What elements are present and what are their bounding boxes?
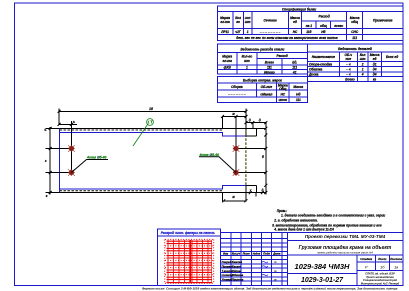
svg-text:Марка: Марка: [222, 55, 232, 59]
dim row3 right small segments: [246, 122, 266, 124]
dim row1 ticks: [58, 110, 248, 113]
table A title row line: [217, 11, 403, 13]
svg-text:г: г: [46, 194, 48, 198]
left bolt label leader: [71, 160, 108, 173]
svg-text:ЛР11: ЛР11: [220, 30, 229, 34]
svg-text:Нд: Нд: [321, 30, 325, 34]
svg-text:НС: НС: [293, 30, 298, 34]
svg-text:ед: ед: [293, 20, 297, 24]
panel top edge (black): [46, 127, 266, 129]
svg-text:– ч: – ч: [346, 72, 351, 76]
red grid dotted borders: [165, 239, 214, 283]
table A outer frame: [217, 6, 403, 41]
seat step extension lines: [246, 136, 256, 186]
svg-text:Ведомость деталей: Ведомость деталей: [338, 47, 372, 51]
bottom right dim line: [224, 200, 246, 202]
svg-text:4отв Ø5-40: 4отв Ø5-40: [199, 153, 220, 157]
svg-text:Формат писал: Синицын 2-М-ВФ-1: Формат писал: Синицын 2-М-ВФ-1029 отдел …: [142, 286, 398, 290]
left bolt column line: [70, 121, 72, 173]
red grid box title divider: [158, 235, 221, 237]
svg-text:д4: д4: [373, 68, 377, 72]
svg-text:во: во: [236, 20, 240, 24]
dim row1 (overall length): [59, 110, 246, 112]
stamp signature rows texts: [222, 260, 244, 281]
svg-text:Грузовая площадка крана на объ: Грузовая площадка крана на объект: [299, 244, 392, 251]
table C title line: [308, 51, 404, 53]
right bolt label leader: [199, 157, 236, 173]
svg-text:фХВ: фХВ: [224, 66, 232, 70]
table D header lines: [217, 83, 307, 103]
svg-text:Общ: Общ: [279, 87, 286, 91]
svg-text:Выборка отправ. марок: Выборка отправ. марок: [243, 78, 282, 82]
svg-text:1029-384 ЧМ3Н: 1029-384 ЧМ3Н: [295, 262, 351, 271]
panel right end verticals (black): [223, 111, 257, 201]
green mark circle: [147, 119, 154, 126]
bolt row leader lines right: [236, 149, 266, 173]
svg-text:дет. вес не вес по всем класса: дет. вес не вес по всем классам на автор…: [236, 36, 337, 40]
svg-text:– ч: – ч: [346, 68, 351, 72]
svg-text:2. в. обработке антисепт.: 2. в. обработке антисепт.: [273, 218, 318, 222]
table A column lines: [233, 12, 363, 41]
svg-text:11д: 11д: [306, 30, 311, 34]
svg-text:шт: шт: [244, 59, 250, 63]
svg-text:Опора-стойка: Опора-стойка: [309, 62, 332, 66]
svg-text:ние: ние: [345, 57, 351, 61]
panel bottom edge (black): [46, 192, 266, 194]
svg-text:41: 41: [292, 70, 297, 74]
svg-text:НС: НС: [280, 92, 285, 96]
bottom edge small ticks + labels: [249, 191, 264, 194]
table A header bottom line: [217, 28, 403, 30]
svg-text:Проект перевозки ТМ4. МУ-03-Т: Проект перевозки ТМ4. МУ-03-ТМ4: [305, 234, 386, 239]
inner top chord line (blue) with seat step: [60, 132, 247, 135]
svg-text:1: 1: [247, 30, 249, 34]
svg-text:д: д: [259, 119, 261, 123]
svg-text:итог: итог: [279, 98, 288, 102]
svg-text:х: х: [249, 188, 252, 192]
green mark leader: [133, 124, 148, 146]
svg-text:4отв Ø5-40: 4отв Ø5-40: [86, 156, 107, 160]
svg-text:111: 111: [267, 66, 272, 70]
svg-text:111: 111: [292, 66, 297, 70]
svg-text:Расход: Расход: [276, 54, 287, 58]
svg-text:1д: 1д: [149, 107, 153, 111]
bolt B4: [233, 169, 240, 176]
svg-text:д1: д1: [373, 62, 377, 66]
svg-text:2: 2: [361, 62, 364, 66]
svg-text:ед: ед: [373, 57, 377, 61]
svg-text:Сечение: Сечение: [263, 19, 276, 23]
svg-text:Минпромстрой №С-Петерб: Минпромстрой №С-Петерб: [361, 281, 400, 285]
bottom hidden edge (yellow/black dashed): [60, 190, 223, 192]
svg-text:Обвязка: Обвязка: [309, 68, 322, 72]
table A data row line: [217, 34, 403, 36]
red grid horizontal lines: [167, 241, 213, 282]
svg-text:Масса: Масса: [293, 85, 303, 89]
inner bottom chord line (blue) with seat step: [60, 185, 247, 189]
svg-text:Кол-во: Кол-во: [242, 55, 253, 59]
svg-text:1в: 1в: [394, 264, 398, 269]
svg-text:4: 4: [361, 72, 364, 76]
stamp left section row lines: [221, 239, 288, 281]
stamp left/right divider: [287, 232, 289, 285]
bottom right dim ticks: [222, 199, 247, 202]
table D title line: [217, 82, 307, 84]
stamp stage table lines: [357, 255, 403, 270]
svg-text:ОБ-ние: ОБ-ние: [261, 85, 273, 89]
svg-text:– ч: – ч: [346, 62, 351, 66]
svg-text:Дата: Дата: [272, 252, 281, 256]
stamp middle divider: [288, 255, 358, 285]
svg-text:Лист: Лист: [377, 257, 387, 261]
svg-text:Всех ед: Всех ед: [386, 55, 398, 59]
right vertical dim line: [265, 123, 267, 195]
svg-text:Нд: Нд: [296, 92, 300, 96]
svg-text:эл-та: эл-та: [220, 20, 230, 24]
svg-text:Подп: Подп: [263, 252, 270, 256]
dim row1 extension verticals: [59, 108, 246, 125]
svg-text:Стадия: Стадия: [360, 257, 372, 261]
green mark label CT: [148, 121, 152, 124]
svg-text:шт: шт: [245, 20, 251, 24]
svg-text:1б: 1б: [380, 264, 385, 269]
svg-text:Расход: Расход: [318, 15, 329, 19]
svg-text:всего: всего: [334, 24, 343, 28]
svg-text:1029-3-01-27: 1029-3-01-27: [301, 277, 344, 284]
svg-text:Наименование: Наименование: [312, 55, 336, 59]
red grid vertical lines: [168, 240, 212, 283]
table B outer frame: [217, 44, 307, 74]
svg-text:Ед.: Ед.: [292, 61, 297, 65]
stamp header row texts: [223, 252, 281, 256]
svg-text:шт: шт: [360, 57, 366, 61]
svg-text:д: д: [262, 188, 264, 192]
top hidden edge (yellow/black dashed): [60, 129, 223, 131]
svg-text:Спецификация балки: Спецификация балки: [282, 7, 316, 11]
svg-text:Листов: Листов: [389, 257, 402, 261]
svg-text:на 1: на 1: [306, 24, 313, 28]
dim row2 left ticks: [58, 123, 73, 126]
svg-text:111: 111: [296, 98, 301, 102]
svg-text:Лист: Лист: [242, 252, 251, 256]
svg-text:общ: общ: [320, 24, 327, 28]
bolt B2: [68, 169, 75, 176]
stamp stage value texts: [365, 264, 398, 269]
svg-text:эл-та: эл-та: [222, 59, 232, 63]
panel left edge (blue): [59, 128, 61, 192]
table B data rows: [217, 69, 307, 71]
dim row2 right ticks: [221, 115, 248, 118]
svg-text:Р: Р: [365, 264, 368, 269]
svg-text:панель рабочего настила типова: панель рабочего настила типовая серия №4: [317, 251, 373, 255]
svg-text:Раскрой чист. фанеры на панель: Раскрой чист. фанеры на панель: [161, 231, 215, 235]
svg-text:111: 111: [352, 36, 357, 40]
svg-text:Всего: Всего: [345, 77, 354, 81]
svg-text:№док: №док: [253, 252, 261, 256]
svg-text:Доска: Доска: [308, 72, 319, 76]
right vertical dim ticks: [264, 127, 267, 194]
stamp stage header texts: [360, 257, 402, 261]
bolt B3: [233, 145, 240, 152]
left vertical dim line: [49, 127, 51, 195]
svg-text:д: д: [249, 119, 251, 123]
left vertical dim ticks: [49, 127, 52, 194]
svg-text:д4: д4: [373, 72, 377, 76]
stamp left section column lines: [231, 232, 282, 285]
svg-text:1: 1: [362, 68, 364, 72]
dim row3 ticks: [245, 121, 268, 124]
svg-text:– – – – – – –: – – – – – – –: [228, 92, 246, 96]
svg-text:общ: общ: [351, 20, 358, 24]
dim row2 right segment: [223, 116, 247, 118]
table C data rows: [308, 67, 404, 77]
red grid blue box: [158, 229, 221, 286]
table D outer frame: [217, 76, 307, 102]
stamp outer frame: [221, 232, 403, 285]
svg-text:Примечание: Примечание: [373, 19, 393, 23]
svg-text:1: 1: [246, 66, 248, 70]
svg-text:– – – – – – – –: – – – – – – – –: [260, 30, 281, 34]
yellow dashed vertical at seat: [245, 130, 247, 185]
svg-text:Кол.уч: Кол.уч: [232, 252, 241, 256]
svg-text:Изм: Изм: [223, 252, 228, 256]
svg-text:1. детали соединять гвоздями и: 1. детали соединять гвоздями и в соответ…: [281, 214, 385, 218]
stamp signature squiggles: [262, 261, 268, 275]
stamp organization text: [361, 272, 400, 286]
table D data rows: [217, 96, 307, 98]
svg-text:сМанал: сМанал: [260, 92, 272, 96]
table B header lines: [217, 52, 307, 74]
table A raskhod group split: [302, 21, 347, 29]
svg-text:Итого: Итого: [264, 70, 275, 74]
svg-text:Сборка: Сборка: [231, 85, 243, 89]
svg-text:Выпуск 11-2Н: Выпуск 11-2Н: [312, 228, 334, 232]
table C header lines: [308, 52, 404, 81]
svg-text:Прим.:: Прим.:: [277, 209, 288, 213]
table B title line: [217, 51, 307, 53]
svg-text:Лмитов: Лмитов: [231, 277, 244, 281]
bolt row leader lines left: [46, 149, 72, 173]
svg-text:кг: кг: [373, 77, 377, 81]
stamp right section row lines: [288, 240, 404, 255]
table C outer frame: [308, 44, 404, 81]
svg-text:СНС: СНС: [351, 30, 359, 34]
bolt B1: [68, 145, 75, 152]
dim row2 left segment: [59, 123, 77, 125]
svg-text:4. масса дана для 1 шт: 4. масса дана для 1 шт: [273, 227, 311, 231]
svg-text:Всего: Всего: [265, 61, 274, 65]
svg-text:Ведомость расхода стали: Ведомость расхода стали: [241, 48, 285, 52]
